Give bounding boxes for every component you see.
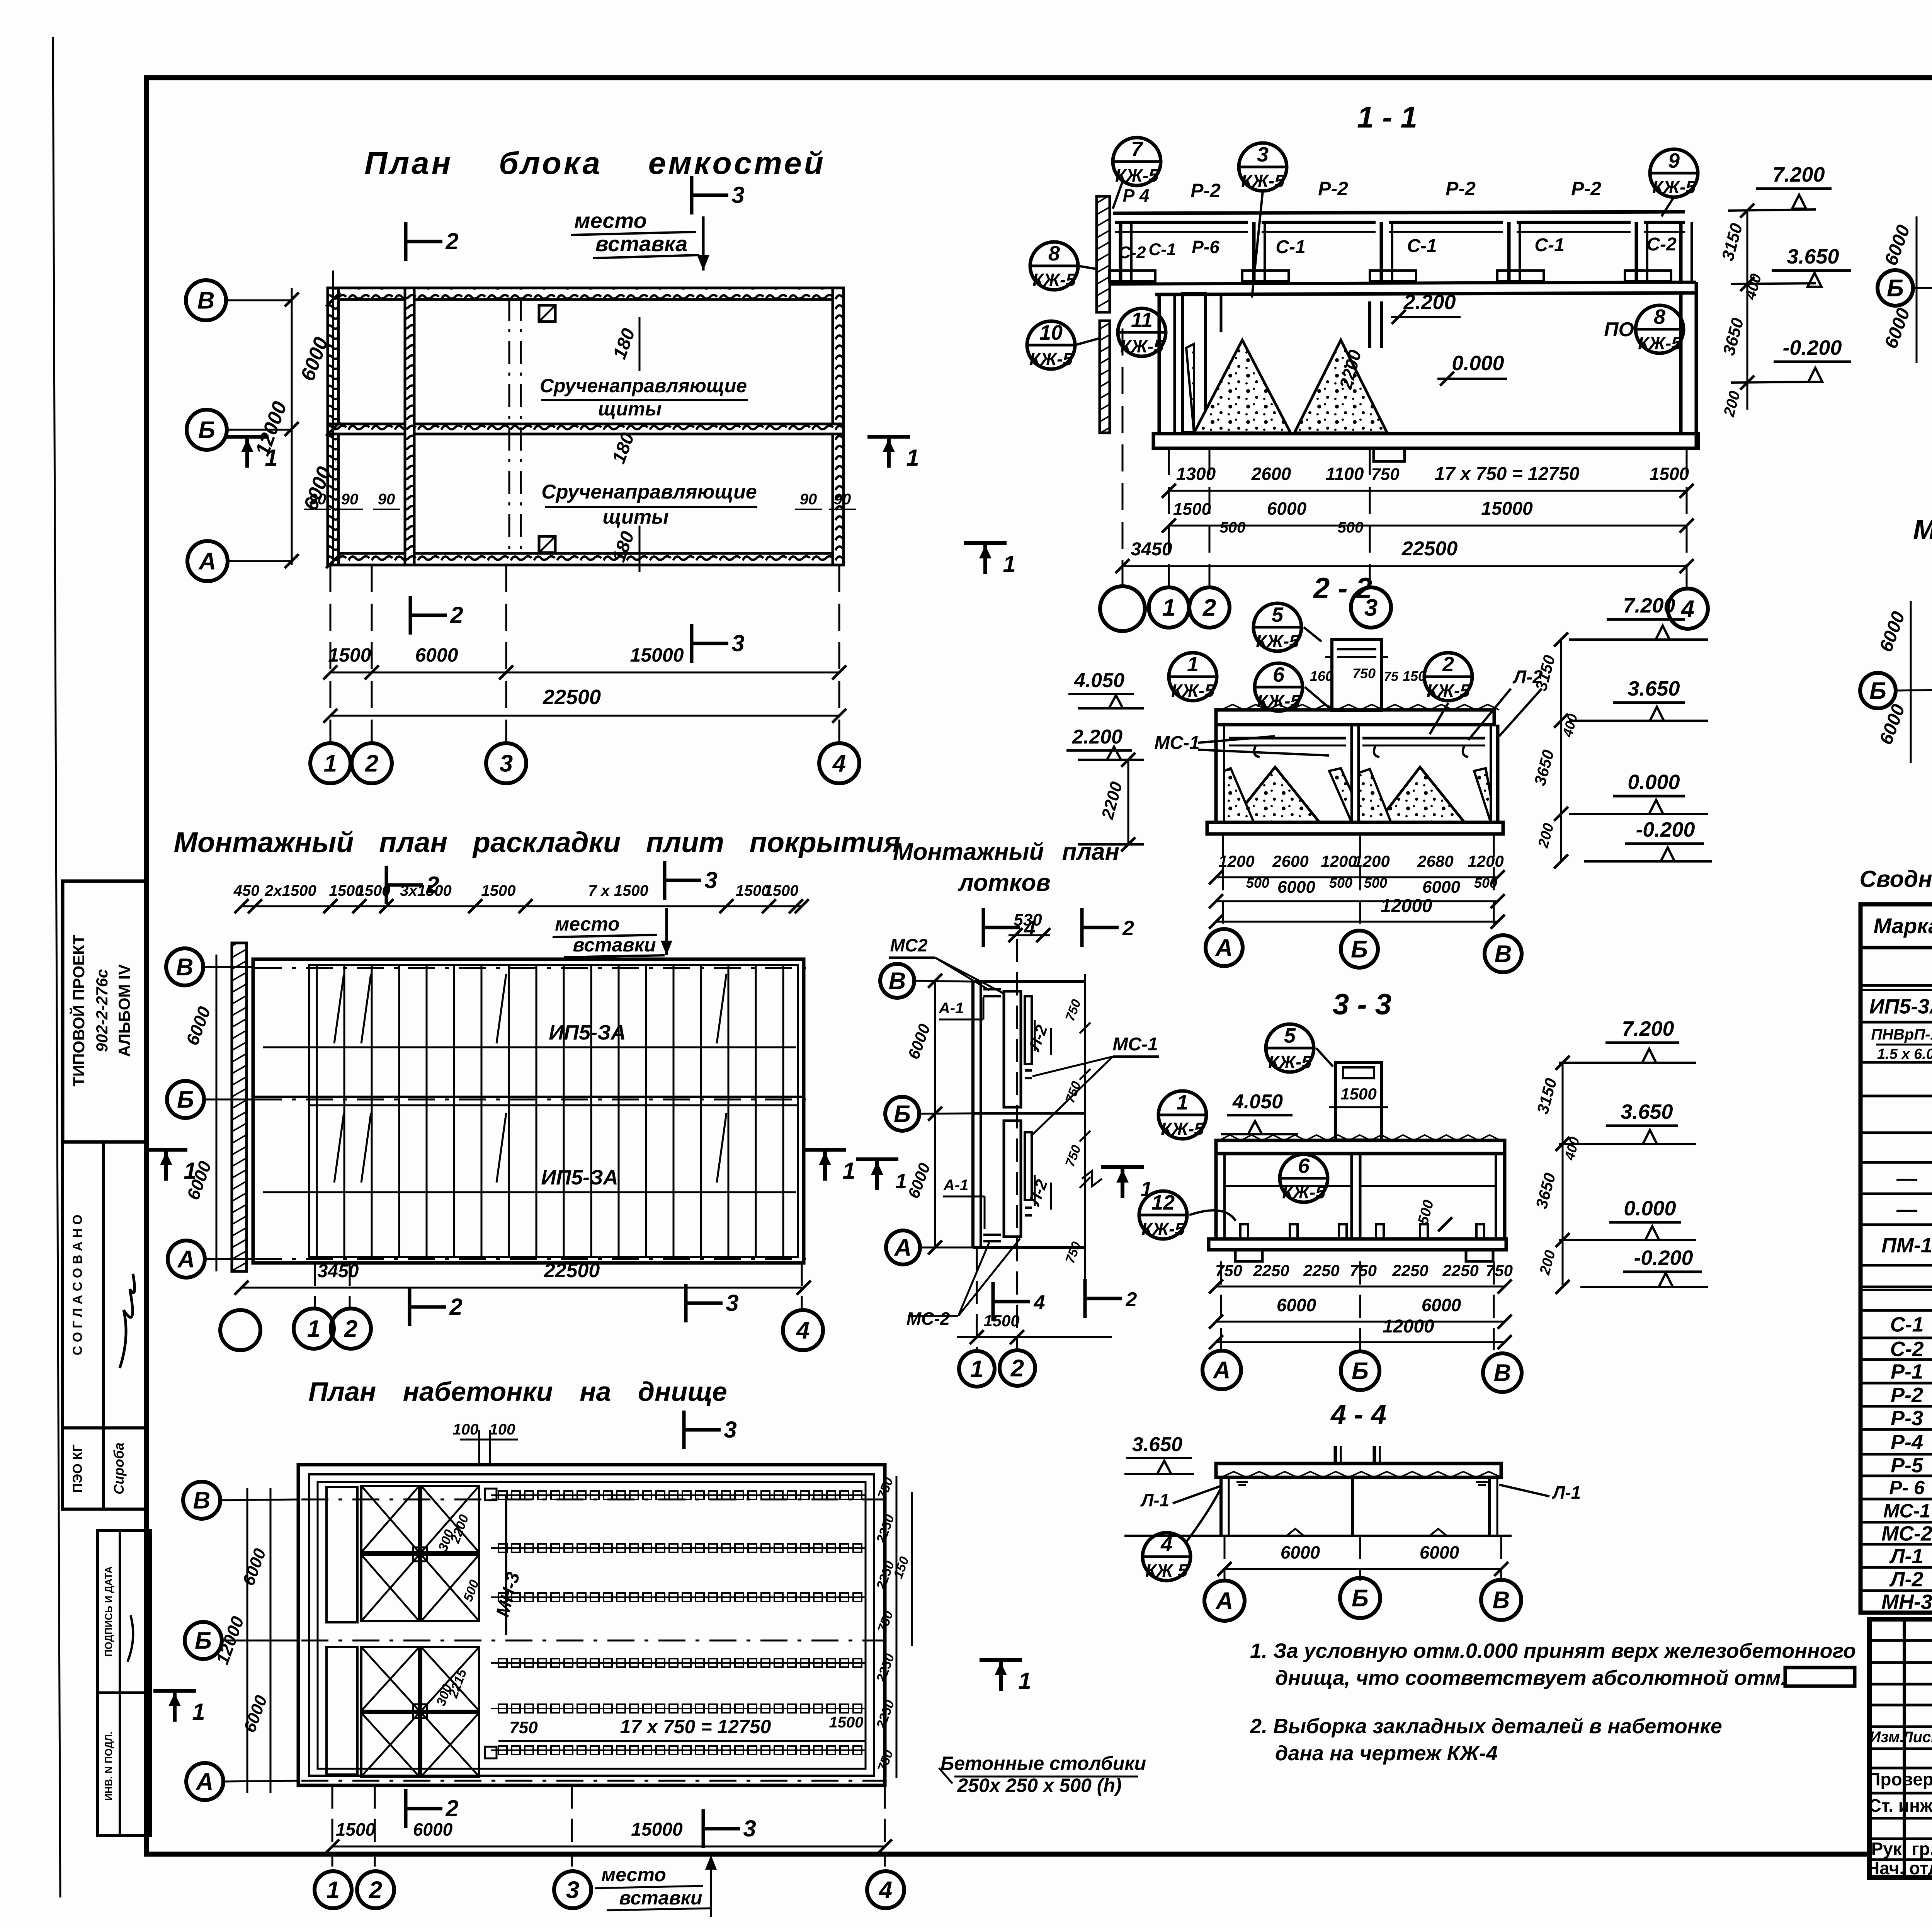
section mark 4 (plan H top) [982,908,985,947]
svg-text:2: 2 [344,1316,357,1343]
svg-text:10: 10 [1039,321,1063,344]
svg-text:500: 500 [1364,875,1387,891]
spec row КЖ-4 Набетонка [1861,1224,1932,1226]
svg-text:3: 3 [731,182,744,208]
svg-text:Б: Б [195,1628,212,1654]
plan G: bottom dim chain [241,1287,804,1289]
svg-text:750: 750 [1486,1261,1513,1280]
4-4: anchor marks on slab [1236,1481,1248,1483]
svg-text:МС-2: МС-2 [1881,1522,1932,1545]
grid circle А (plan A) [187,541,228,581]
svg-text:ИП5-ЗА: ИП5-ЗА [541,1166,618,1189]
plan H: lower channel Л-2 [1004,1121,1021,1237]
2-2: top slab [1216,710,1494,725]
svg-text:Сводная спецификация железоб: Сводная спецификация железобетонных и ст… [1860,866,1932,892]
svg-text:90: 90 [834,491,851,508]
svg-text:11: 11 [1131,308,1153,332]
svg-text:А: А [198,548,216,575]
spec section: Стальные элементы [1863,1292,1932,1309]
plan A: bottom dimension chain [330,565,332,742]
plan A: small embedded squares [539,305,555,322]
2-2: bottom dim chain 2 [1216,900,1498,902]
spec row Л-2 [1861,1589,1932,1592]
plan H: left dim line 6000/6000 [934,981,936,1247]
section 1-1: small stack at node 3 [1368,301,1371,348]
svg-text:90: 90 [341,491,359,508]
grid circle 4 (plan A bottom) [819,743,859,783]
svg-text:22500: 22500 [544,1259,600,1282]
svg-text:ИП5-3А: ИП5-3А [1869,995,1932,1018]
callout 10/КЖ-5 [1027,321,1075,369]
svg-text:530: 530 [1014,910,1042,929]
svg-text:ПЭО КГ: ПЭО КГ [70,1445,85,1493]
spec row Р-4 [1861,1453,1932,1456]
svg-text:1: 1 [895,1170,907,1193]
svg-text:4 - 4: 4 - 4 [1330,1399,1386,1430]
3-3: mid horizontal line [1225,1185,1352,1187]
svg-text:С-1: С-1 [1149,240,1176,259]
svg-text:4: 4 [796,1317,810,1344]
svg-text:6000: 6000 [1422,1295,1461,1315]
svg-text:750: 750 [1215,1261,1242,1280]
svg-text:Нач. отд: Нач. отд [1867,1858,1932,1878]
section mark 2 (plan G bottom) [408,1288,412,1326]
svg-text:75: 75 [1384,669,1399,684]
svg-text:Р-2: Р-2 [1891,1383,1923,1407]
svg-text:Б: Б [1352,1358,1369,1385]
svg-text:7.200: 7.200 [1622,1017,1674,1040]
svg-text:В: В [1495,941,1512,968]
3-3: bottom dim chain 2 [1216,1321,1505,1323]
grid circle 2 (plan A bottom) [352,743,392,783]
plan C: left grid dims [1916,216,1918,363]
grid circle Б (plan D) [1860,673,1896,708]
section mark 3 (bottom) [690,624,694,663]
2-2: tank walls [1214,725,1218,823]
svg-text:дана на чертеж КЖ-4: дана на чертеж КЖ-4 [1275,1742,1498,1765]
section 1-1: inner partition column [1220,294,1223,332]
section mark 4 (plan H bottom) [992,1282,995,1321]
plan D: left grid dims [1910,601,1912,763]
plan A: top wall [328,288,844,299]
svg-text:1: 1 [184,1158,196,1184]
svg-text:6000: 6000 [1277,1295,1316,1315]
spec row Р-1 [1861,1382,1932,1385]
svg-text:3: 3 [743,1816,756,1841]
plan H: bottom dims [976,1247,978,1351]
svg-text:2: 2 [445,1795,458,1821]
svg-text:Р-2: Р-2 [1571,178,1601,199]
svg-text:3: 3 [566,1877,579,1904]
svg-text:3.650: 3.650 [1621,1100,1673,1123]
grid circle Б (plan A) [187,410,227,450]
section 1-1: right wall [1679,294,1683,435]
svg-text:2250: 2250 [1392,1261,1428,1280]
svg-text:90: 90 [378,491,395,508]
svg-text:С-1: С-1 [1534,235,1564,255]
plan L: left grid circles [183,1482,220,1519]
svg-text:В: В [197,288,215,314]
grid circle 3 (plan A bottom) [486,743,526,783]
svg-text:3.650: 3.650 [1132,1433,1182,1456]
svg-text:Ст. инж.: Ст. инж. [1869,1795,1932,1816]
svg-text:В: В [1494,1360,1511,1387]
svg-text:2250: 2250 [1253,1261,1289,1280]
svg-text:-0.200: -0.200 [1636,818,1695,841]
svg-text:С-2: С-2 [1646,234,1677,255]
section 1-1: left retaining wall (hatched) [1097,196,1110,312]
svg-text:щиты: щиты [598,398,662,420]
svg-text:6000: 6000 [1277,878,1315,897]
spec row ПМ-1 Плита покрытия [1861,1264,1932,1267]
2-2: bracket rails МС-1 [1229,737,1346,740]
svg-text:7: 7 [1131,138,1144,161]
callout 6/КЖ-5 (3-3) [1280,1154,1328,1202]
paper edge line (left) [53,37,60,1897]
2-2: bottom slab [1207,822,1503,834]
svg-text:500: 500 [1220,519,1246,536]
svg-text:1500: 1500 [764,882,799,899]
svg-text:6000: 6000 [413,1819,453,1840]
svg-text:А: А [196,1769,214,1795]
svg-text:щиты: щиты [602,506,668,528]
svg-text:Б: Б [1351,936,1368,963]
svg-text:Р 4: Р 4 [1122,185,1149,206]
svg-text:Монтажный план: Монтажный план [893,839,1119,865]
section 1-1: bottom dim chain 3 [1122,565,1687,567]
spec row МН-3 [1861,1611,1932,1614]
svg-text:МС-1: МС-1 [1154,733,1199,753]
spec empty row 2 [1861,1286,1932,1288]
sidebar: Инв N подл / Подписи box [98,1530,151,1836]
svg-text:3: 3 [724,1417,736,1443]
svg-text:1: 1 [1162,595,1175,621]
svg-text:0.000: 0.000 [1452,352,1504,375]
svg-text:1: 1 [1003,551,1015,577]
svg-text:1: 1 [324,750,337,777]
plan H: right rotated dims 750 [1084,974,1086,1310]
svg-text:В: В [889,968,906,995]
section mark 1 marks (plan H) [856,1157,898,1161]
section mark 3 (top) [690,176,694,214]
gallery cell bottom line [1111,282,1696,284]
3-3: grid circles [1220,1261,1222,1349]
svg-text:Б: Б [1869,678,1886,704]
plan L: anchor square rows [491,1494,866,1496]
callout 1/КЖ-5 (2-2) [1169,653,1217,701]
svg-text:1500: 1500 [336,1819,376,1840]
spec table: outer frame [1861,904,1932,1613]
svg-text:-0.200: -0.200 [1634,1246,1693,1269]
svg-text:—: — [1896,1167,1918,1190]
svg-text:1200: 1200 [1321,852,1357,870]
plan A: centre dash-dot line [509,298,510,556]
svg-text:9: 9 [1668,149,1680,172]
svg-text:2680: 2680 [1417,852,1453,870]
svg-text:Р- 6: Р- 6 [1889,1477,1925,1499]
svg-text:3.650: 3.650 [1787,245,1839,268]
svg-text:12: 12 [1151,1191,1175,1214]
svg-text:3: 3 [726,1290,738,1316]
2-2: bottom dim chain 1 [1216,876,1498,878]
svg-text:лотков: лотков [957,870,1051,896]
section 1-1: right dim column [1747,211,1748,410]
svg-text:2x1500: 2x1500 [264,882,316,899]
insert arrow (plan A) [702,216,705,271]
plan G: top dim chain [241,905,802,907]
svg-text:6000: 6000 [1420,1542,1459,1562]
svg-text:1: 1 [327,1877,340,1904]
svg-text:—: — [1896,1198,1918,1221]
svg-text:Р-2: Р-2 [1446,178,1476,199]
svg-text:1: 1 [1018,1668,1031,1694]
3-3: walls [1214,1154,1218,1239]
svg-text:1500: 1500 [983,1312,1019,1330]
svg-text:1: 1 [1187,653,1199,676]
3-3: feet [1235,1250,1262,1261]
svg-text:500: 500 [1329,875,1352,891]
spec row Р-6 [1861,1498,1932,1501]
svg-text:15000: 15000 [631,1819,683,1840]
svg-text:С-2: С-2 [1890,1338,1923,1361]
plan G: horizontal splits [253,1096,804,1098]
svg-text:15000: 15000 [630,644,684,666]
svg-text:6000: 6000 [1267,499,1307,519]
svg-text:3: 3 [731,630,744,656]
section 1-1: tank top band [1155,293,1696,294]
plan G: left hatched retaining strip [232,943,247,1271]
svg-text:2: 2 [365,750,378,777]
svg-text:АЛЬБОМ IV: АЛЬБОМ IV [115,964,133,1057]
svg-text:Марка: Марка [1874,914,1932,938]
svg-text:902-2-276с: 902-2-276с [93,969,111,1052]
plan H: outline [971,982,975,1247]
svg-text:ПНВрП-1: ПНВрП-1 [1871,1026,1932,1043]
section 1-1: gallery roof beam line [1113,212,1685,213]
gallery columns [1119,222,1122,282]
svg-text:С-1: С-1 [1890,1313,1923,1336]
svg-text:3450: 3450 [318,1261,359,1281]
section mark 3 (plan G top) [663,861,667,900]
callout 5/КЖ-5 (3-3) [1266,1024,1314,1072]
3-3: bottom dim chain 1 [1216,1286,1505,1288]
svg-text:Р-2: Р-2 [1190,180,1221,201]
svg-text:2: 2 [1202,595,1216,621]
svg-text:место: место [555,913,620,935]
svg-text:МН-3: МН-3 [1881,1590,1932,1613]
svg-text:5: 5 [1284,1024,1296,1047]
svg-text:Монтажный план раскладки пл: Монтажный план раскладки плит покрытия [173,826,900,858]
svg-text:7 x 1500: 7 x 1500 [588,882,648,899]
callout 6/КЖ-5 (2-2) [1255,663,1303,711]
plan G: plate field outline [253,959,804,1263]
svg-text:А: А [894,1235,912,1261]
svg-text:8: 8 [1654,305,1665,328]
svg-text:место: место [601,1864,666,1885]
plan A: left grid dimension lines [291,288,293,565]
svg-text:3: 3 [1257,143,1269,166]
svg-text:Б: Б [177,1087,194,1113]
callout 3/КЖ-5 [1239,143,1287,191]
svg-text:15000: 15000 [1481,499,1533,519]
svg-text:вставка: вставка [595,231,688,256]
spec row МС-1 [1861,1521,1932,1524]
section 1-1: tank bottom slab [1153,434,1698,448]
svg-text:3x1500: 3x1500 [400,882,451,899]
svg-text:2: 2 [445,228,458,254]
plan G: dash-dot row axes [255,967,808,969]
spec row МС-2 [1861,1543,1932,1546]
svg-text:22500: 22500 [1401,538,1458,560]
svg-text:Провер.: Провер. [1867,1769,1932,1789]
title block: left signature grid [1903,1619,1906,1877]
svg-text:2: 2 [1126,1288,1137,1311]
4-4: top stubs [1334,1446,1337,1463]
svg-text:Б: Б [1352,1585,1369,1612]
plan L: small diamond nodes [413,1547,427,1561]
svg-text:1100: 1100 [1326,464,1364,484]
spec row Л-1 [1861,1566,1932,1569]
grid circle В (plan A) [186,280,226,320]
grid circle 1 (plan A bottom) [310,743,350,783]
svg-text:2: 2 [369,1877,382,1904]
insert arrow (plan G) [665,908,668,955]
4-4: long base line with breaks [1124,1535,1512,1537]
plan L: outer rect [298,1465,885,1785]
svg-text:КЖ-5: КЖ-5 [1161,1119,1204,1139]
4-4: support walls [1219,1477,1223,1536]
svg-text:2600: 2600 [1272,852,1308,870]
svg-text:1.5 х 6.0: 1.5 х 6.0 [1877,1046,1932,1062]
3-3: chimney [1335,1063,1382,1140]
svg-text:12000: 12000 [1381,896,1432,916]
svg-text:6000: 6000 [1422,878,1460,897]
svg-text:4.050: 4.050 [1074,669,1124,692]
svg-text:КЖ-5: КЖ-5 [1427,681,1470,701]
svg-text:1500: 1500 [481,882,516,899]
svg-text:КЖ-5: КЖ-5 [1268,1052,1312,1072]
gallery column base plates [1109,271,1155,281]
plan L: X-braced squares (upper) [361,1486,419,1552]
plan G: bottom grid circles [314,1263,316,1310]
svg-text:ИП5-ЗА: ИП5-ЗА [549,1021,626,1044]
svg-text:Б: Б [198,417,215,444]
svg-text:17 х 750 = 12750: 17 х 750 = 12750 [620,1716,771,1737]
svg-text:Бетонные столбики: Бетонные столбики [940,1753,1146,1774]
svg-text:КЖ-5: КЖ-5 [1638,333,1682,353]
svg-text:12000: 12000 [1383,1316,1434,1337]
plan L: bottom grid circles [332,1785,333,1867]
svg-text:150: 150 [1403,668,1426,684]
svg-text:1: 1 [1177,1091,1188,1114]
section mark 2 (plan H bottom) [1083,1279,1087,1318]
spec row Р-5 [1861,1475,1932,1477]
svg-text:6: 6 [1273,663,1285,686]
svg-text:500: 500 [1246,875,1269,891]
4-4: grid circles [1224,1536,1226,1581]
callout 4/КЖ5 (4-4) [1143,1533,1190,1581]
spec row ИП5-3А [1861,1021,1932,1024]
svg-text:1500: 1500 [1340,1085,1376,1103]
spec row С-1 [1861,1337,1932,1339]
svg-text:место: место [574,208,647,233]
svg-text:КЖ-5: КЖ-5 [1256,631,1299,651]
plan A: right wall [833,288,844,565]
spec row С-2 [1861,1358,1932,1361]
svg-text:КЖ-5: КЖ-5 [1652,177,1696,197]
section 1-1: gallery deck structure [1115,221,1248,224]
svg-text:2.200: 2.200 [1403,291,1456,314]
svg-text:Р-5: Р-5 [1891,1454,1923,1477]
svg-text:ТИПОВОЙ ПРОЕКТ: ТИПОВОЙ ПРОЕКТ [69,934,88,1087]
section 1-1: concrete triangles (sludge hoppers) [1194,340,1291,433]
svg-text:КЖ-5: КЖ-5 [1241,171,1285,191]
2-2: bottom dim chain 3 [1216,921,1498,923]
2-2: grid circles [1222,834,1224,928]
svg-text:В: В [1493,1587,1510,1614]
sidebar: ПЭО КГ box [63,1428,104,1509]
svg-text:С-2: С-2 [1119,243,1146,262]
svg-text:1: 1 [842,1158,855,1184]
svg-text:ПМ-1: ПМ-1 [1881,1234,1932,1257]
grid circle Б (plan C) [1878,270,1913,306]
svg-text:КЖ-5: КЖ-5 [1141,1219,1185,1239]
title block: outer frame [1869,1619,1932,1877]
svg-text:МС2: МС2 [890,935,928,955]
svg-text:2.200: 2.200 [1072,726,1122,748]
section mark 2 (plan H top) [1080,908,1084,947]
spec empty row [1861,1095,1932,1098]
svg-text:Л-2: Л-2 [1889,1568,1923,1591]
spec section: Сборные железобетонные элементы [1863,950,1932,984]
plan A: left wall [328,288,338,565]
plan G: left dims [216,955,218,1271]
svg-text:Р-3: Р-3 [1891,1407,1923,1430]
svg-text:Р-4: Р-4 [1891,1431,1923,1454]
svg-text:МС-1: МС-1 [1112,1034,1158,1055]
svg-text:1200: 1200 [1468,852,1503,870]
svg-text:А-1: А-1 [939,1000,964,1017]
2-2: concrete triangles right cell [1378,767,1464,822]
svg-text:0.000: 0.000 [1624,1197,1676,1220]
svg-text:План блока емкостей: План блока емкостей [364,146,826,181]
svg-text:-0.200: -0.200 [1782,336,1842,359]
svg-text:КЖ-5: КЖ-5 [1171,681,1215,701]
svg-text:2 - 2: 2 - 2 [1313,572,1372,605]
svg-text:ИНВ. N ПОДЛ.: ИНВ. N ПОДЛ. [103,1731,114,1800]
section mark 1 (right of plan A) [867,435,910,439]
3-3: top slab band [1216,1140,1505,1154]
section mark 2 (top) [404,222,408,261]
svg-text:С-1: С-1 [1407,236,1437,256]
2-2: right dim column [1560,640,1562,862]
svg-text:1: 1 [265,445,277,471]
spec table: header row [1861,946,1932,950]
svg-text:2250: 2250 [1303,1261,1339,1280]
2-2: concrete triangles left cell [1231,767,1320,822]
svg-text:А: А [1213,1357,1231,1384]
section mark 2 (plan G top) [385,866,388,904]
svg-text:Р-1: Р-1 [1891,1360,1923,1383]
svg-text:2: 2 [450,602,463,628]
svg-text:С О Г Л А С О В А Н О: С О Г Л А С О В А Н О [70,1215,85,1355]
svg-text:А-1: А-1 [943,1177,968,1194]
svg-text:Л-1: Л-1 [1140,1490,1170,1510]
svg-text:6000: 6000 [1281,1542,1320,1562]
svg-text:7.200: 7.200 [1772,163,1825,186]
svg-text:А: А [1215,935,1233,961]
section mark 1 marks (plan G) [145,1148,187,1152]
